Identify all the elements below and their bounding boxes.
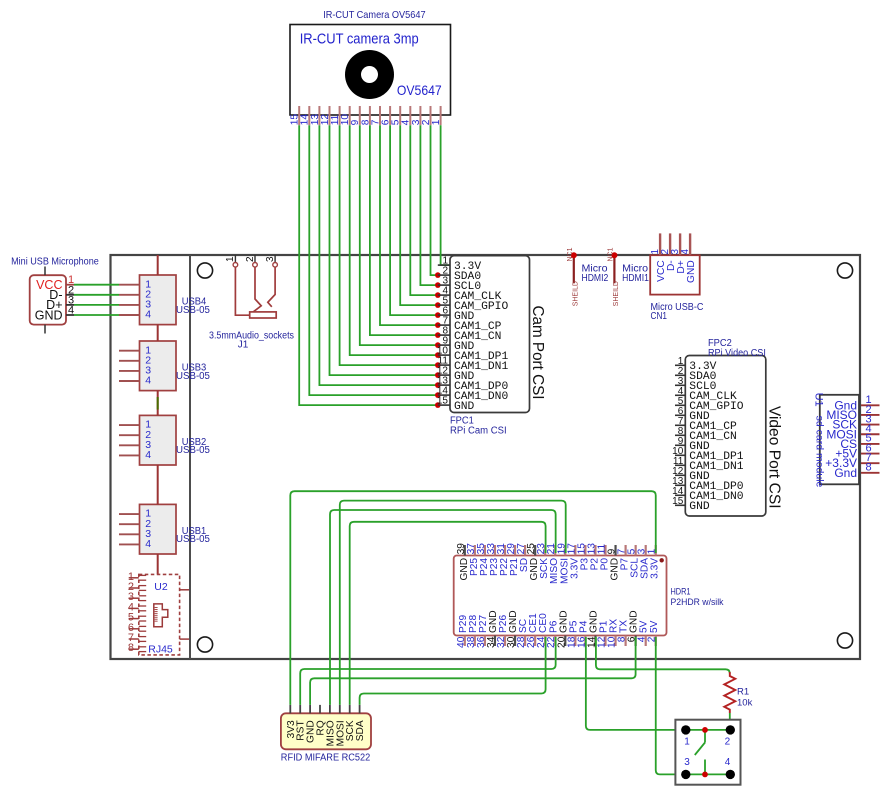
wire USB3-USB2 <box>157 391 159 416</box>
PCB board outline <box>111 255 861 659</box>
HDR1 top pin stubs <box>465 545 656 556</box>
wire camera pin 3 to FPC1 pin 3 <box>420 125 437 285</box>
svg-text:3: 3 <box>265 256 276 262</box>
svg-text:8: 8 <box>128 642 134 654</box>
svg-text:USB-05: USB-05 <box>176 371 210 382</box>
svg-text:10k: 10k <box>737 698 753 709</box>
svg-text:4: 4 <box>401 119 412 125</box>
junction FPC1 pin 9 <box>435 342 441 348</box>
svg-text:IR-CUT Camera OV5647: IR-CUT Camera OV5647 <box>323 9 426 21</box>
wire camera pin 11 to FPC1 pin 11 <box>340 125 438 365</box>
wire RST HDR1 pin22 to RFID RST <box>300 637 555 705</box>
svg-text:15: 15 <box>437 396 449 407</box>
svg-text:5: 5 <box>391 119 402 125</box>
svg-text:14: 14 <box>300 114 311 126</box>
svg-text:OV5647: OV5647 <box>397 82 442 98</box>
HDR1 bottom pin stubs <box>465 636 656 647</box>
switch pin numbers <box>684 737 731 768</box>
wire USB3-USB2 green overlap <box>157 397 159 410</box>
wire camera pin 8 to FPC1 pin 8 <box>370 125 438 335</box>
svg-text:Video Port CSI: Video Port CSI <box>765 406 782 509</box>
wire SCK HDR1 pin23 to RFID SCK <box>350 522 546 705</box>
R1 value label <box>737 687 753 709</box>
CN1 reference label <box>651 302 704 322</box>
svg-text:Gnd: Gnd <box>834 466 857 480</box>
mounting hole bottom-right <box>837 633 852 648</box>
FPC2 RPi Video CSI connector <box>672 356 766 517</box>
HDR1 bottom pin labels <box>458 610 660 633</box>
svg-text:IR-CUT camera 3mp: IR-CUT camera 3mp <box>300 31 419 47</box>
wire 5V HDR1 pin2 to switch pin3 <box>656 637 683 774</box>
svg-text:RFID MIFARE RC522: RFID MIFARE RC522 <box>281 752 371 763</box>
svg-text:SHEILD: SHEILD <box>573 281 580 306</box>
wire camera pin 2 to FPC1 pin 2 <box>431 125 438 275</box>
connector USB2 USB-05 <box>119 415 210 465</box>
wire USB1 to U2 <box>157 554 159 574</box>
svg-text:3.3V: 3.3V <box>650 558 661 579</box>
U1 sd card module <box>812 393 879 488</box>
svg-text:GND: GND <box>686 260 697 283</box>
mounting hole bottom-left <box>197 637 212 652</box>
connector USB1 USB-05 <box>119 504 210 554</box>
wire camera pin 14 to FPC1 pin 14 <box>309 125 438 395</box>
svg-text:2: 2 <box>421 119 432 125</box>
mounting hole top-right <box>837 263 852 278</box>
wire microphone pin 4 to USB4 pin 4 <box>74 314 119 316</box>
mounting hole top-left <box>197 263 212 278</box>
wire USB2-USB1 <box>157 465 159 504</box>
wire camera pin 6 to FPC1 pin 6 <box>390 125 438 315</box>
svg-text:CN1: CN1 <box>651 311 668 322</box>
svg-text:8: 8 <box>360 119 371 125</box>
svg-text:1: 1 <box>684 737 690 748</box>
wire microphone pin 3 to USB4 pin 3 <box>74 304 119 306</box>
junction FPC1 pin 3 <box>435 282 441 288</box>
switch actuator <box>695 730 705 775</box>
svg-text:HDMI1: HDMI1 <box>622 273 649 284</box>
Micro HDMI1 connector <box>608 247 650 306</box>
junction switch row2 <box>702 772 708 778</box>
connector USB4 USB-05 <box>119 275 210 325</box>
switch pin 1 <box>681 725 690 734</box>
U2 RJ45 component <box>128 571 180 656</box>
svg-text:8: 8 <box>866 462 872 474</box>
svg-text:SDA: SDA <box>355 720 366 741</box>
junction FPC1 pin 14 <box>435 392 441 398</box>
inner board line <box>189 255 191 659</box>
svg-text:4: 4 <box>68 305 74 317</box>
wire GND HDR1 pin14 to resistor R1 <box>596 637 730 674</box>
switch internal wire pins 3-4 <box>686 773 731 775</box>
junction FPC1 pin 11 <box>435 362 441 368</box>
junction FPC1 pin 7 <box>435 322 441 328</box>
junction FPC1 pin 13 <box>435 382 441 388</box>
U2 right stub upper <box>180 589 189 591</box>
svg-text:GND: GND <box>454 401 475 413</box>
switch pin 2 <box>726 725 735 734</box>
HDR1 bottom pin numbers <box>456 636 658 648</box>
wire GND HDR1 pin6 to RFID GND <box>310 637 635 705</box>
wire USB4-USB3 <box>157 325 159 341</box>
svg-text:sd card module: sd card module <box>813 416 825 488</box>
svg-text:USB-05: USB-05 <box>176 305 210 316</box>
svg-text:9: 9 <box>350 119 361 125</box>
wire camera pin 1 to FPC1 pin 1 <box>441 125 450 265</box>
svg-text:NC1: NC1 <box>567 247 574 261</box>
wire camera pin 12 to FPC1 pin 12 <box>330 125 438 375</box>
svg-text:4: 4 <box>145 309 151 321</box>
svg-text:GND: GND <box>35 308 63 322</box>
junction FPC1 pin 2 <box>435 272 441 278</box>
wire camera pin 10 to FPC1 pin 10 <box>350 125 438 355</box>
svg-text:R1: R1 <box>737 687 749 698</box>
svg-text:4: 4 <box>145 449 151 461</box>
svg-text:4: 4 <box>680 249 691 255</box>
svg-text:P2HDR w/silk: P2HDR w/silk <box>671 597 724 608</box>
svg-text:USB-05: USB-05 <box>176 445 210 456</box>
svg-text:1: 1 <box>431 119 442 125</box>
switch pin 4 <box>726 770 735 779</box>
svg-text:15: 15 <box>290 114 301 126</box>
svg-text:3: 3 <box>411 119 422 125</box>
wire MOSI HDR1 pin19 to RFID MOSI <box>340 501 566 705</box>
HDR1 pin1 marker dot <box>660 558 664 562</box>
svg-text:2: 2 <box>725 737 731 748</box>
U2 RJ45 jack icon <box>154 604 168 627</box>
wire P4 HDR1 pin16 to switch pin1 <box>586 637 683 730</box>
USB4 top pin to board edge <box>157 255 159 275</box>
audio jack label <box>209 331 294 351</box>
svg-text:SHEILD: SHEILD <box>613 281 620 306</box>
junction FPC1 pin 4 <box>435 292 441 298</box>
svg-text:RPi Video CSI: RPi Video CSI <box>708 348 766 359</box>
camera pin numbers 15..1 <box>290 114 442 126</box>
svg-text:RJ45: RJ45 <box>148 644 173 656</box>
wire microphone pin 2 to USB4 pin 2 <box>74 294 119 296</box>
svg-text:5V: 5V <box>649 620 660 633</box>
push button switch body <box>675 720 740 785</box>
svg-text:NC1: NC1 <box>608 247 615 261</box>
wire SDA HDR1 pin24 to RFID SDA <box>360 637 546 705</box>
svg-text:4: 4 <box>145 375 151 387</box>
HDR1 reference label <box>671 587 724 609</box>
svg-text:Cam Port CSI: Cam Port CSI <box>529 306 546 400</box>
connector USB3 USB-05 <box>119 341 210 391</box>
svg-text:HDR1: HDR1 <box>671 587 691 598</box>
svg-text:6: 6 <box>381 119 392 125</box>
header HDR1 P2HDR body <box>454 556 667 636</box>
camera pin stubs <box>299 106 440 125</box>
svg-text:1: 1 <box>225 256 236 262</box>
junction FPC1 pin 5 <box>435 302 441 308</box>
U2 right stub lower <box>180 638 189 640</box>
junction FPC1 pin 6 <box>435 312 441 318</box>
svg-text:10: 10 <box>340 114 351 126</box>
Micro USB-C CN1 connector <box>650 233 700 294</box>
svg-text:USB-05: USB-05 <box>176 534 210 545</box>
wire camera pin 4 to FPC1 pin 4 <box>410 125 438 295</box>
wire camera pin 9 to FPC1 pin 9 <box>360 125 438 345</box>
svg-text:2: 2 <box>245 256 256 262</box>
wire 3.3V HDR1 pin1 to RFID 3V3 <box>290 491 655 705</box>
wire camera pin 5 to FPC1 pin 5 <box>400 125 438 305</box>
junction FPC1 pin 8 <box>435 332 441 338</box>
svg-text:U1: U1 <box>812 393 824 407</box>
wire R1 to switch pin2 <box>729 713 731 730</box>
svg-text:3: 3 <box>684 757 690 768</box>
switch pin 3 <box>681 770 690 779</box>
svg-text:GND: GND <box>689 501 710 513</box>
resistor R1 10k <box>724 672 735 713</box>
wire MISO HDR1 pin21 to RFID MISO <box>330 510 556 705</box>
junction FPC1 pin 15 <box>435 402 441 408</box>
audio jack J1 3.5mm <box>225 255 277 318</box>
microphone J-mic component <box>30 267 74 334</box>
svg-text:11: 11 <box>330 114 341 125</box>
wire microphone pin 1 to USB4 pin 1 <box>74 284 119 286</box>
junction FPC1 pin 12 <box>435 372 441 378</box>
RFID MIFARE RC522 module <box>281 705 371 749</box>
wire camera pin 15 to FPC1 pin 15 <box>299 125 438 405</box>
FPC1 reference label <box>450 416 507 437</box>
switch internal wire pins 1-2 <box>686 729 731 731</box>
svg-text:4: 4 <box>145 538 151 550</box>
svg-text:15: 15 <box>672 496 684 507</box>
FPC2 reference label <box>708 338 766 359</box>
junction switch row1 <box>702 727 708 733</box>
junction FPC1 pin 10 <box>435 352 441 358</box>
svg-text:12: 12 <box>320 114 331 126</box>
svg-text:7: 7 <box>370 119 381 125</box>
svg-text:13: 13 <box>310 114 321 126</box>
FPC1 RPi Cam CSI connector <box>437 256 530 413</box>
svg-text:J1: J1 <box>238 340 249 351</box>
camera module IR-CUT OV5647 <box>290 9 451 115</box>
HDR1 top pin numbers <box>456 543 658 555</box>
svg-text:HDMI2: HDMI2 <box>582 273 609 284</box>
svg-text:U2: U2 <box>154 581 168 593</box>
wire camera pin 7 to FPC1 pin 7 <box>380 125 438 325</box>
Micro HDMI2 connector <box>567 247 609 306</box>
svg-text:Mini USB Microphone: Mini USB Microphone <box>11 257 99 268</box>
HDR1 top pin labels <box>459 558 661 584</box>
svg-text:3.5mmAudio_sockets: 3.5mmAudio_sockets <box>209 331 294 342</box>
svg-text:4: 4 <box>725 757 731 768</box>
wire camera pin 13 to FPC1 pin 13 <box>319 125 437 385</box>
svg-text:RPi Cam CSI: RPi Cam CSI <box>450 426 507 437</box>
